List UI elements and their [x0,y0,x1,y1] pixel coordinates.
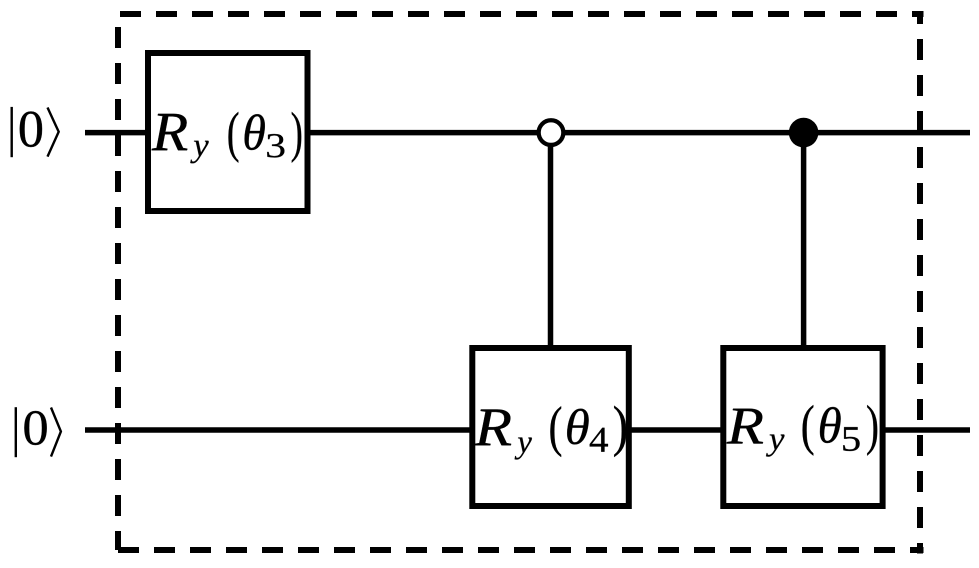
dashed boundary box top side [118,11,924,17]
gate Ry(theta4) box [472,348,629,506]
wire control link CRy(theta5) vertical [801,133,807,348]
dashed boundary box right side [917,14,923,554]
gate Ry(theta3) box [148,53,308,211]
gate Ry(theta4) label [474,406,626,460]
control filled dot on qubit 0 [789,118,819,148]
gate Ry(theta3) label [152,112,302,163]
gate Ry(theta5) label [727,405,878,457]
gate Ry(theta5) box [723,348,882,506]
ket |0> label qubit 1 [15,407,61,457]
ket |0> label qubit 0 [11,107,59,157]
wire qubit 1 (bottom horizontal line) [85,427,970,433]
dashed boundary box left side [115,14,121,550]
wire qubit 0 (top horizontal line) [85,130,970,136]
control open circle (anti-control) on qubit 0 [539,120,564,145]
dashed boundary box bottom side [118,547,924,553]
wire control link CRy(theta4) vertical [548,133,554,348]
